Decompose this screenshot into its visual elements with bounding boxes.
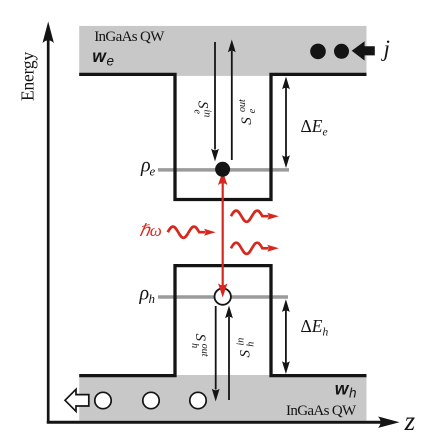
red radiative transition arrow (double-headed) (218, 171, 227, 298)
arrow S_e^out (up out of well) (228, 40, 236, 161)
svg-text:S: S (195, 101, 211, 109)
svg-text:h: h (189, 343, 200, 348)
conduction band edge with quantum well (79, 74, 366, 199)
hole circle 2 (143, 392, 159, 408)
label: S_e^out (rotated, reads upward) (237, 99, 258, 125)
photon squiggle lower right (231, 243, 279, 254)
valence band edge with quantum well (79, 266, 366, 376)
svg-text:e: e (192, 110, 203, 115)
svg-text:ΔEe: ΔEe (301, 116, 328, 139)
level line rho_e (158, 168, 289, 172)
svg-text:e: e (150, 164, 156, 179)
hole circle 3 (190, 392, 206, 408)
label: S_h^out (rotated, reads downward) (189, 334, 210, 357)
label: S_e^in (rotated, reads downward) (192, 101, 213, 117)
level line rho_h (158, 295, 288, 299)
hole (open circle) on rho_h (215, 288, 231, 304)
svg-text:h: h (349, 385, 357, 400)
svg-text:h: h (245, 342, 256, 347)
svg-text:S: S (239, 117, 255, 125)
upper barrier gray band (InGaAs QW, electrons) (79, 26, 366, 76)
photon hbar-omega squiggle left (168, 227, 216, 238)
arrow S_h^out (down out of well) (212, 306, 220, 402)
photon squiggle upper right (231, 211, 279, 222)
svg-text:z: z (404, 406, 416, 436)
electron dots top right (310, 44, 326, 60)
svg-text:w: w (335, 379, 350, 399)
electron (filled dot) on rho_e (215, 162, 230, 177)
Delta E_e double arrow (282, 77, 290, 169)
label: S_h^in (rotated, reads upward) (235, 338, 256, 358)
svg-text:InGaAs QW: InGaAs QW (286, 403, 357, 419)
svg-text:S: S (192, 334, 208, 342)
svg-text:h: h (149, 291, 156, 306)
lower barrier gray band (InGaAs QW, holes) (79, 375, 366, 421)
svg-text:ℏω: ℏω (139, 221, 162, 240)
svg-text:ΔEh: ΔEh (301, 316, 329, 339)
y axis (Energy) (43, 22, 54, 424)
svg-text:w: w (92, 46, 107, 66)
svg-text:j: j (381, 36, 390, 61)
hole current open arrow bottom left (pointing left) (65, 389, 89, 411)
x axis (z) (47, 417, 400, 428)
solid current arrow j (pointing left) (352, 41, 375, 60)
Delta E_h double arrow (282, 299, 290, 374)
svg-text:Energy: Energy (18, 52, 38, 101)
hole circle 1 (95, 392, 111, 408)
svg-text:e: e (247, 108, 258, 113)
svg-text:InGaAs QW: InGaAs QW (94, 29, 165, 45)
svg-text:S: S (237, 350, 253, 358)
arrow S_h^in (up into well) (225, 306, 233, 401)
svg-text:e: e (107, 53, 115, 68)
arrow S_e^in (down into well) (211, 42, 219, 162)
